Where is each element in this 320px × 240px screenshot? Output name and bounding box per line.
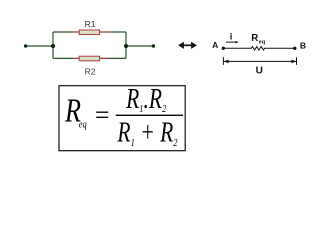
svg-text:R1: R1 bbox=[85, 19, 96, 29]
svg-text:R1.R2: R1.R2 bbox=[125, 84, 166, 115]
svg-text:i: i bbox=[230, 31, 233, 42]
svg-text:eq: eq bbox=[259, 39, 266, 45]
svg-text:U: U bbox=[256, 66, 263, 77]
svg-text:B: B bbox=[300, 41, 306, 51]
svg-text:eq: eq bbox=[79, 118, 87, 130]
svg-text:R2: R2 bbox=[85, 66, 96, 76]
svg-text:A: A bbox=[212, 40, 218, 50]
svg-text:R: R bbox=[251, 33, 258, 44]
svg-text:R1 + R2: R1 + R2 bbox=[117, 118, 178, 149]
svg-text:=: = bbox=[93, 101, 111, 130]
